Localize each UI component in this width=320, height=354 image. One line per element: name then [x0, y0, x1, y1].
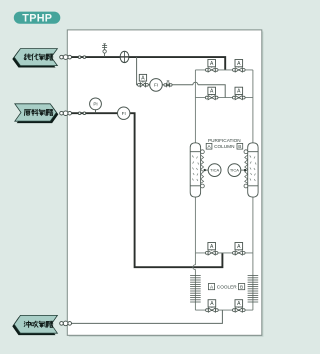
purification column B vessel — [244, 143, 258, 197]
wire: feed manifold — [195, 97, 253, 99]
valve: cooler B outlet — [233, 300, 246, 313]
wire: product line (thick) from exit to manifold tie — [60, 57, 225, 70]
svg-text:PI: PI — [93, 102, 97, 107]
valve A on branch line — [138, 74, 149, 87]
flow indicator FI on feed line — [118, 107, 130, 119]
purification column A vessel — [190, 143, 204, 197]
wire: to feed manifold mid tap — [198, 85, 225, 98]
banner 沖吹氣體 (purge gas, points left) — [12, 315, 57, 335]
valve: column B product — [233, 60, 246, 73]
wire: feed line (thick) from inlet down and across bottom to feed manifold tie — [60, 113, 222, 267]
label PURIFICATION COLUMN — [206, 138, 243, 149]
wire: column B downcomer — [252, 197, 254, 253]
svg-text:B: B — [240, 284, 243, 289]
wire: product manifold — [195, 69, 253, 71]
plant boundary shadow — [69, 31, 264, 336]
wire: column A downcomer — [194, 197, 196, 253]
flow indicator FI on branch line — [150, 79, 163, 92]
valve: column A bottom — [205, 243, 218, 256]
svg-text:FI: FI — [122, 111, 126, 116]
pressure indicator PI on feed line — [90, 98, 102, 113]
valve: cooler A outlet — [206, 300, 219, 313]
wire: cooler B feed — [252, 253, 254, 310]
valve: column A product — [205, 60, 218, 73]
valve: column A feed — [205, 87, 218, 100]
plant boundary box — [67, 30, 261, 335]
svg-text:B: B — [238, 144, 241, 149]
svg-text:TICA: TICA — [210, 168, 219, 173]
hose connector at purge gas exit — [60, 321, 72, 326]
wire: branch from product line to purge-feed instruments — [137, 57, 193, 85]
wire: cooler outlet manifold — [195, 309, 253, 311]
svg-text:COLUMN: COLUMN — [214, 144, 234, 149]
svg-text:TICA: TICA — [230, 168, 239, 173]
needle valve on branch line — [164, 81, 172, 87]
svg-text:TPHP: TPHP — [22, 12, 52, 24]
valve: column B feed — [233, 87, 246, 100]
wire: cooler A feed with hop over thick line — [193, 253, 196, 310]
wire: purge line to exit — [60, 310, 222, 323]
inline sight glass / check on product line — [120, 51, 129, 62]
banner 原料氣體 (feed gas, points right) — [15, 104, 59, 123]
temperature controller TICA column A — [204, 164, 222, 177]
hose connector at purified gas exit — [60, 55, 86, 60]
heating coil column B — [245, 155, 248, 183]
temperature controller TICA column B — [228, 164, 246, 177]
heating coil column A — [201, 155, 204, 183]
title pill TPHP — [14, 12, 61, 25]
wire: lower column manifold — [195, 252, 253, 254]
cooler B finned tube — [248, 276, 259, 302]
svg-text:PURIFICATION: PURIFICATION — [208, 138, 241, 143]
banner 純化氣體 (purified gas, points left) — [12, 49, 57, 68]
wire: hop over column A riser — [193, 82, 198, 84]
svg-text:FI: FI — [154, 83, 158, 88]
valve: column B bottom — [233, 243, 246, 256]
wire: column A riser — [194, 70, 196, 143]
hose connector at feed gas inlet — [60, 111, 86, 116]
wire: column B riser — [252, 70, 254, 143]
label COOLER — [208, 284, 244, 290]
vent to atmosphere on product line — [102, 44, 107, 57]
cooler A finned tube — [190, 276, 201, 302]
svg-text:COOLER: COOLER — [217, 284, 237, 289]
